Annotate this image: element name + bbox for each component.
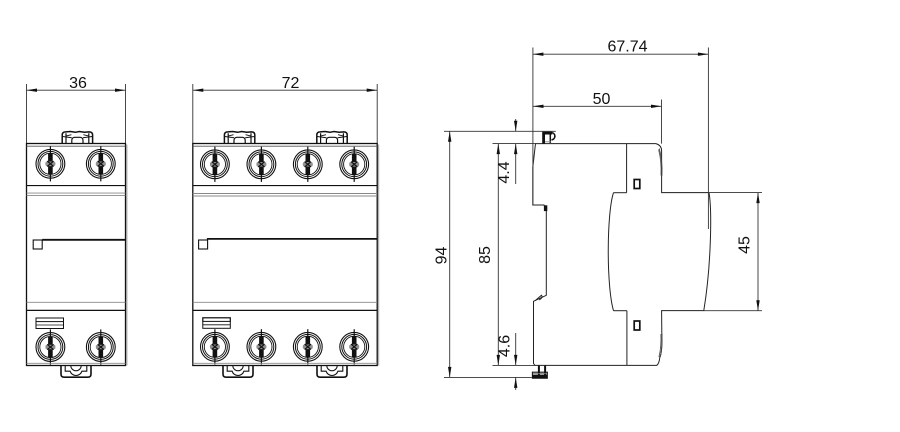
terminal strip bottom line bbox=[27, 185, 126, 187]
terminal T3 bbox=[36, 329, 65, 364]
dim 85 bottom extension bbox=[493, 364, 536, 366]
terminal T1 bbox=[36, 146, 65, 181]
arrow bottom 85 bbox=[497, 355, 500, 366]
dimension 72 extension line right bbox=[376, 84, 378, 144]
arrow right 50 bbox=[651, 105, 662, 108]
dim 4.4 lower line bbox=[515, 144, 517, 184]
terminal U5 bbox=[201, 329, 230, 364]
device body outline 1-module bbox=[27, 144, 126, 366]
seam line bbox=[27, 195, 126, 197]
nameplate 1-module bbox=[36, 318, 64, 329]
svg-text:67.74: 67.74 bbox=[607, 39, 647, 56]
seam line bbox=[193, 195, 377, 197]
dim 94 top extension bbox=[444, 130, 556, 132]
arrow right 67.74 bbox=[698, 53, 709, 56]
arrow bottom 94 bbox=[448, 367, 451, 378]
dimension line 72 bbox=[193, 89, 377, 91]
rear latch barb bbox=[535, 295, 542, 300]
inner step bottom bbox=[614, 310, 627, 312]
dimension line 94 bbox=[449, 131, 451, 377]
top clip 1-module bbox=[62, 132, 92, 144]
arrow left 67.74 bbox=[533, 53, 544, 56]
bottom inner line bbox=[193, 362, 377, 364]
bottom clip foot plate bbox=[532, 372, 547, 378]
dim 45 bottom extension bbox=[704, 310, 762, 312]
arrow top 45 bbox=[756, 193, 759, 204]
terminal T4 bbox=[86, 329, 115, 364]
bottom clip foot dark bar bbox=[532, 375, 547, 379]
rect hole bottom bbox=[634, 321, 640, 330]
inner seam vertical top bbox=[626, 144, 628, 193]
dimension line 85 bbox=[497, 144, 499, 366]
rect hole top bbox=[634, 180, 640, 189]
terminal U1 bbox=[201, 147, 230, 182]
side body outline bbox=[533, 144, 711, 366]
dim 4.6 upper line bbox=[515, 333, 517, 365]
dim 4.6 lower line bbox=[515, 377, 517, 390]
terminal U2 bbox=[247, 147, 276, 182]
dim 4.4 upper line bbox=[515, 119, 517, 131]
arrow up 4.4 bbox=[514, 144, 517, 155]
handle slot line bbox=[42, 239, 125, 241]
DIN tab A 2-module bbox=[223, 366, 253, 378]
dimension 72 extension line left bbox=[192, 84, 194, 144]
svg-text:85: 85 bbox=[477, 246, 494, 264]
device body outline 2-module bbox=[193, 144, 377, 366]
arrow down 4.6 bbox=[514, 355, 517, 366]
lower seam line dark bbox=[27, 309, 126, 311]
DIN tab B 2-module bbox=[317, 366, 347, 378]
top corner lens detail bbox=[659, 149, 662, 177]
top face inner line bbox=[27, 145, 126, 147]
inner step top bbox=[614, 192, 627, 194]
dim 45 top extension bbox=[662, 192, 762, 194]
top rail clip hook curl bbox=[550, 133, 555, 144]
svg-text:4.4: 4.4 bbox=[496, 161, 513, 183]
DIN tab 1-module bbox=[61, 366, 91, 378]
svg-text:72: 72 bbox=[282, 75, 300, 92]
arrow bottom 45 bbox=[756, 300, 759, 311]
dimension line 45 bbox=[757, 193, 759, 311]
lower seam line dark bbox=[193, 309, 377, 311]
arrow up 4.6 bbox=[514, 377, 517, 388]
dimension line 36 bbox=[27, 89, 126, 91]
bottom corner lens detail bbox=[659, 334, 662, 358]
bottom clip gray line bbox=[533, 373, 547, 375]
dimension 36 extension line right bbox=[125, 84, 127, 144]
dim 50 extension right bbox=[661, 100, 663, 144]
top clip gray line bbox=[545, 141, 551, 143]
arrow top 85 bbox=[497, 144, 500, 155]
terminal U8 bbox=[340, 329, 369, 364]
bottom clip side verticals bbox=[539, 366, 545, 378]
seam line bbox=[193, 193, 377, 195]
concave neck curve bbox=[608, 193, 613, 311]
dimension line 67.74 bbox=[533, 53, 709, 55]
nameplate 2-module bbox=[203, 318, 231, 329]
dimension line 50 bbox=[533, 105, 662, 107]
dim 67.74 extension right bbox=[707, 48, 709, 230]
dim 94 bottom extension bbox=[444, 376, 532, 378]
right edge shadow line bbox=[126, 145, 128, 366]
terminal T2 bbox=[86, 146, 115, 181]
terminal U7 bbox=[293, 329, 322, 364]
terminal U4 bbox=[340, 147, 369, 182]
arrow right of 72 bbox=[367, 89, 378, 92]
arrow left of 72 bbox=[193, 89, 204, 92]
terminal U3 bbox=[293, 147, 322, 182]
window square indicator bbox=[199, 240, 208, 249]
arrow left of 36 bbox=[27, 89, 38, 92]
top clip A 2-module bbox=[224, 132, 254, 144]
inner seam vertical bottom bbox=[626, 311, 628, 366]
arrow left 50 bbox=[533, 105, 544, 108]
top face inner line bbox=[193, 145, 377, 147]
right edge shadow line bbox=[378, 145, 380, 366]
arrow down 4.4 bbox=[514, 121, 517, 132]
svg-text:45: 45 bbox=[737, 236, 754, 254]
dimension 36 extension line left bbox=[26, 84, 28, 144]
rear step nub bbox=[544, 205, 547, 211]
lower seam line gray bbox=[193, 301, 377, 303]
terminal U6 bbox=[247, 329, 276, 364]
handle slot line bbox=[207, 238, 377, 240]
dim 67.74 extension left bbox=[532, 48, 534, 206]
top rail clip side bbox=[542, 132, 552, 144]
dim 85 top extension bbox=[493, 143, 536, 145]
bottom inner line bbox=[27, 362, 126, 364]
seam line bbox=[27, 192, 126, 194]
svg-text:4.6: 4.6 bbox=[497, 335, 514, 357]
svg-text:94: 94 bbox=[434, 247, 451, 265]
svg-text:36: 36 bbox=[69, 75, 87, 92]
terminal strip bottom line bbox=[193, 185, 377, 187]
window square indicator bbox=[33, 240, 42, 249]
arrow right of 36 bbox=[115, 89, 126, 92]
lower seam line gray bbox=[27, 301, 126, 303]
svg-text:50: 50 bbox=[593, 91, 611, 108]
arrow top 94 bbox=[448, 131, 451, 142]
top clip B 2-module bbox=[317, 132, 347, 144]
